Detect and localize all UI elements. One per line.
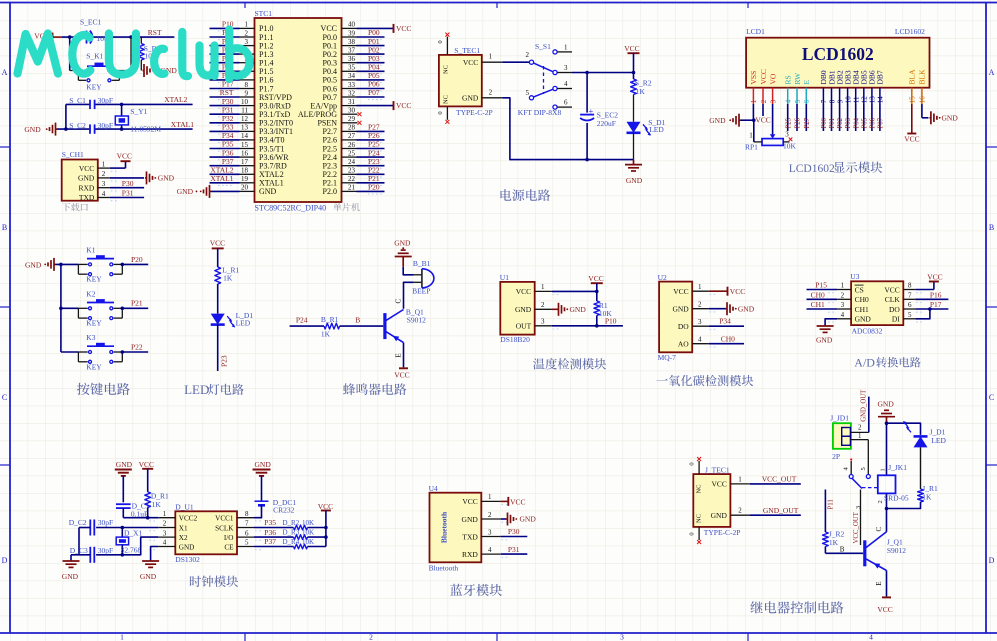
capacitor S_EC2 (580, 73, 618, 160)
svg-text:Bluetooth: Bluetooth (429, 563, 459, 572)
pin 1 S_CH1 (98, 160, 119, 171)
svg-text:P23: P23 (220, 355, 229, 367)
svg-text:P04: P04 (853, 117, 860, 128)
svg-text:A: A (2, 68, 8, 77)
pin 28 STC1 / net P27 (342, 123, 385, 134)
pin 31 STC1 / power VCC (342, 98, 412, 110)
wire net B (340, 315, 384, 326)
svg-text:LED: LED (649, 125, 664, 134)
svg-text:S9012: S9012 (407, 316, 426, 325)
power VCC S_CH1 (110, 152, 132, 169)
pin 12 LCD1 name DB5 (860, 70, 869, 104)
svg-text:B: B (989, 223, 994, 232)
pin 38 STC1 / net P01 (342, 37, 385, 48)
svg-text:SRD-05: SRD-05 (884, 494, 909, 503)
led S_D1 (627, 95, 666, 160)
svg-text:2: 2 (738, 507, 742, 515)
pin 26 STC1 / net P25 (342, 140, 385, 151)
designator LCD1 (746, 27, 765, 36)
svg-text:RST: RST (148, 28, 162, 37)
pin top S_TEC1 no-connect (437, 33, 450, 55)
svg-text:3: 3 (841, 301, 845, 309)
resistor D_R4 net P37 (254, 537, 326, 549)
svg-text:15: 15 (241, 141, 249, 149)
svg-text:VCC: VCC (730, 287, 745, 296)
wire lcd pin6 net P27 (804, 104, 811, 131)
svg-text:GND: GND (116, 460, 133, 469)
svg-text:S_Y1: S_Y1 (130, 107, 147, 116)
wire lcd pin11 net P04 (853, 104, 860, 131)
svg-text:9: 9 (836, 99, 844, 103)
svg-text:23: 23 (348, 167, 356, 175)
svg-text:1K: 1K (223, 274, 233, 283)
caption 电源电路 (501, 189, 551, 201)
capacitor D_C1 (116, 476, 150, 519)
wire X2 (96, 537, 158, 555)
pin 16 LCD1 name BLK (918, 69, 927, 104)
net P17 (915, 300, 948, 309)
svg-text:DI: DI (892, 315, 900, 324)
svg-text:GND: GND (78, 174, 95, 183)
svg-text:GND: GND (672, 305, 689, 314)
power VCC U1 (588, 274, 603, 301)
junction (752, 118, 756, 122)
svg-text:VCC: VCC (588, 274, 603, 283)
capacitor D_C2 (69, 518, 114, 535)
svg-text:4: 4 (488, 546, 492, 554)
svg-text:24: 24 (348, 158, 356, 166)
svg-text:1: 1 (163, 510, 167, 518)
svg-text:CH1: CH1 (811, 300, 825, 309)
wire lcd pin10 net P03 (845, 104, 852, 131)
svg-text:GND: GND (259, 187, 277, 196)
svg-text:DS1302: DS1302 (175, 555, 200, 564)
buzzer B_B1 (412, 259, 434, 296)
svg-text:C: C (989, 393, 994, 402)
svg-text:VCC_OUT: VCC_OUT (853, 511, 860, 543)
svg-text:J_TEC1: J_TEC1 (705, 465, 730, 474)
power VCC clock (139, 460, 154, 492)
wire key bus (56, 264, 79, 352)
svg-text:K3: K3 (86, 333, 95, 342)
svg-text:30pF: 30pF (98, 121, 113, 130)
svg-text:GND: GND (711, 511, 728, 520)
svg-text:7: 7 (820, 99, 828, 103)
pin 10 STC1 / net P30 (210, 97, 255, 108)
crystal D_X1 (116, 528, 142, 555)
capacitor S_EC1 (80, 17, 112, 43)
svg-text:VSS: VSS (749, 71, 758, 85)
resistor L_R1 (215, 266, 240, 284)
svg-text:1K: 1K (321, 330, 331, 339)
net P11 resistor J_R2 (823, 490, 845, 554)
pin 15 STC1 / net P35 (210, 140, 255, 151)
svg-text:2: 2 (877, 500, 884, 503)
pin 8 U3 stub (903, 282, 924, 293)
svg-text:6: 6 (564, 99, 568, 107)
junction (121, 526, 125, 530)
pin 3 LCD1 name VO (768, 73, 777, 104)
svg-text:C: C (394, 299, 402, 304)
svg-text:P31: P31 (508, 545, 520, 554)
svg-text:2: 2 (698, 301, 702, 309)
svg-text:1: 1 (750, 99, 758, 103)
wire lcd pin5 net P26 (795, 104, 802, 131)
svg-text:10K: 10K (302, 538, 314, 546)
svg-text:2: 2 (245, 29, 249, 37)
power VCC buzzer (394, 367, 409, 379)
svg-text:VCC: VCC (884, 285, 899, 294)
relay switch contact (842, 458, 878, 545)
pin bottom J_TEC1 no-connect (689, 527, 702, 544)
designator U4 (429, 484, 438, 493)
junction (885, 507, 889, 511)
crystal S_Y1 (115, 104, 161, 133)
svg-text:1: 1 (738, 475, 742, 483)
svg-text:P30: P30 (508, 527, 520, 536)
svg-text:1K: 1K (829, 538, 839, 547)
pin 1 U1 (535, 283, 597, 294)
pin 4 U4 stub (481, 546, 509, 557)
svg-text:GND: GND (462, 515, 479, 524)
ic U2 body (659, 282, 692, 353)
svg-text:VCC: VCC (904, 134, 919, 143)
ground at STC1 pin 20 (177, 185, 211, 198)
pin 4 U2 stub (692, 336, 717, 347)
svg-text:GND: GND (942, 113, 959, 122)
svg-text:K1: K1 (86, 245, 95, 254)
junction (121, 553, 125, 557)
svg-text:GND: GND (878, 400, 895, 409)
svg-text:CR232: CR232 (273, 506, 295, 515)
power VCC U3 (915, 273, 942, 290)
caption 蜂鸣器电路 (343, 383, 406, 395)
ground relay (878, 400, 896, 424)
ground S_CH1 (110, 171, 175, 184)
svg-text:P02: P02 (837, 117, 844, 128)
svg-text:30pF: 30pF (98, 546, 113, 555)
pin 5 D_U1 stub (237, 539, 263, 550)
pin 8 STC1 / net P17 (210, 80, 255, 91)
svg-text:LCD1602: LCD1602 (789, 163, 835, 175)
pin 4 LCD1 name RS (784, 75, 793, 104)
svg-text:6: 6 (803, 99, 811, 103)
svg-text:VCC: VCC (755, 115, 770, 124)
pin 3 U1 (535, 316, 623, 329)
pin 13 STC1 / net P33 (210, 123, 255, 134)
ground clock top (115, 460, 133, 476)
svg-text:GND_OUT: GND_OUT (860, 389, 867, 422)
designator STC1 (255, 9, 273, 18)
wire lcd pin8 net P01 (829, 104, 836, 131)
transistor J_Q1 (865, 532, 907, 571)
svg-text:GND: GND (394, 239, 411, 248)
junction (121, 263, 125, 267)
svg-text:3: 3 (245, 38, 249, 46)
svg-text:RS: RS (784, 75, 793, 84)
svg-text:38: 38 (348, 38, 356, 46)
switch S_S1 (526, 42, 573, 109)
junction (885, 421, 889, 425)
svg-text:STC89C52RC_DIP40: STC89C52RC_DIP40 (255, 204, 327, 213)
svg-text:2: 2 (163, 520, 167, 528)
svg-text:S_EC1: S_EC1 (80, 17, 102, 26)
svg-text:P25: P25 (785, 117, 792, 128)
svg-text:33: 33 (348, 81, 356, 89)
svg-text:B_R1: B_R1 (321, 315, 339, 324)
connector J_TEC1 body (693, 474, 730, 527)
pin 2 STC1 / net P11 (210, 28, 255, 39)
svg-text:A: A (989, 68, 995, 77)
svg-text:D_U1: D_U1 (175, 502, 194, 511)
value MQ-7 (658, 353, 677, 362)
caption A/D转换电路 (854, 356, 920, 370)
svg-text:4: 4 (564, 80, 568, 88)
svg-text:ADC0832: ADC0832 (852, 327, 883, 336)
svg-text:15: 15 (909, 96, 917, 104)
svg-text:8: 8 (908, 282, 912, 290)
pin 1 S_TEC1 (482, 53, 530, 63)
svg-text:D_X1: D_X1 (124, 528, 143, 537)
wire (920, 447, 922, 489)
svg-text:1K: 1K (922, 493, 932, 502)
pin 14 STC1 / net P34 (210, 131, 255, 142)
svg-text:3: 3 (769, 99, 777, 103)
svg-text:30: 30 (348, 107, 356, 115)
svg-text:GND: GND (140, 572, 157, 581)
svg-text:0: 0 (437, 111, 444, 114)
svg-text:+: + (589, 106, 594, 116)
pin 2 U4 stub (481, 511, 509, 522)
wire emitter (394, 343, 403, 368)
power VCC led (210, 238, 225, 267)
svg-text:P30: P30 (122, 179, 134, 188)
svg-text:B: B (840, 545, 845, 553)
pin 25 STC1 / net P24 (342, 148, 385, 159)
svg-text:GND: GND (158, 174, 175, 183)
svg-text:D: D (2, 556, 8, 565)
svg-text:1K: 1K (636, 87, 646, 96)
pin top J_TEC1 no-connect (689, 457, 702, 474)
svg-text:3: 3 (488, 528, 492, 536)
svg-text:B: B (2, 223, 7, 232)
pin 37 STC1 / net P02 (342, 45, 385, 56)
svg-text:2: 2 (541, 301, 545, 309)
pin 2 J_JD1 net GND_OUT (850, 389, 868, 433)
capacitor D_C3 (70, 546, 113, 563)
svg-text:KEY: KEY (86, 275, 102, 284)
pin 4 S_CH1 (98, 190, 119, 201)
caption 继电器控制电路 (750, 601, 843, 614)
wire emitter relay (875, 571, 887, 597)
svg-text:VCC: VCC (711, 480, 726, 489)
wire lcd bla vcc (904, 104, 919, 143)
net P30 U4 (501, 527, 528, 536)
svg-text:CH0: CH0 (855, 295, 869, 304)
wire led branch (887, 423, 921, 435)
designator U2 (658, 273, 667, 282)
pin 32 STC1 / net P07 (342, 88, 385, 99)
svg-text:D_R3: D_R3 (283, 528, 300, 536)
wire lcd pin9 net P02 (837, 104, 844, 131)
svg-text:12: 12 (241, 115, 249, 123)
svg-text:SCLK: SCLK (215, 524, 234, 532)
svg-text:5: 5 (860, 467, 867, 470)
caption 温度检测模块 (533, 358, 606, 370)
pin 27 STC1 / net P26 (342, 131, 385, 142)
resistor D_R1 (145, 492, 169, 518)
svg-text:13: 13 (241, 124, 249, 132)
svg-text:BEEP: BEEP (412, 287, 430, 296)
svg-text:S9012: S9012 (887, 546, 906, 555)
svg-text:GND: GND (855, 315, 872, 324)
svg-text:GND: GND (179, 543, 195, 551)
pin 2 S_CH1 (98, 170, 119, 181)
pin 22 STC1 / net P21 (342, 174, 385, 185)
svg-text:VCC: VCC (79, 164, 94, 173)
ground clock mid (140, 547, 159, 581)
svg-text:S_TEC1: S_TEC1 (454, 46, 480, 55)
svg-text:B_B1: B_B1 (413, 259, 431, 268)
svg-text:2: 2 (526, 51, 530, 59)
svg-text:DB7: DB7 (876, 70, 885, 84)
capacitor S_C1 (69, 96, 113, 109)
pin 1 U4 stub (481, 493, 509, 504)
svg-text:P2.0: P2.0 (323, 187, 337, 196)
wire lcd blk gnd (922, 104, 929, 118)
pin 15 LCD1 name BLA (908, 69, 917, 104)
svg-text:35: 35 (348, 64, 356, 72)
svg-text:10: 10 (241, 98, 249, 106)
svg-text:LED: LED (184, 382, 209, 397)
wire (403, 267, 414, 275)
svg-text:VCC: VCC (516, 287, 531, 296)
svg-text:E: E (875, 582, 883, 586)
svg-text:30pF: 30pF (98, 96, 113, 105)
wire XTAL2 (66, 103, 193, 105)
svg-text:P06: P06 (870, 117, 877, 128)
wire P21 (122, 299, 148, 309)
svg-text:30pF: 30pF (98, 518, 113, 527)
ground crystal (24, 123, 57, 136)
svg-text:VCC1: VCC1 (215, 515, 234, 523)
junction (595, 324, 599, 328)
junction (68, 35, 72, 39)
svg-text:1: 1 (858, 432, 862, 440)
power VCC reset (34, 32, 62, 42)
pin 3 STC1 / net P12 (210, 37, 255, 48)
svg-text:LCD1602: LCD1602 (895, 27, 925, 36)
wire DI tie (915, 309, 930, 319)
wire lcd pin14 net P07 (878, 104, 885, 131)
svg-text:C: C (2, 393, 7, 402)
svg-text:1: 1 (841, 282, 845, 290)
svg-text:VCC: VCC (673, 287, 688, 296)
svg-text:34: 34 (348, 72, 356, 80)
svg-text:RP1: RP1 (745, 143, 758, 152)
svg-text:VCC: VCC (624, 44, 639, 53)
svg-text:DO: DO (678, 322, 689, 331)
svg-text:KEY: KEY (86, 319, 102, 328)
svg-text:OUT: OUT (516, 322, 532, 331)
pin 21 STC1 / net P20 (342, 183, 385, 194)
svg-text:4: 4 (698, 336, 702, 344)
svg-text:32: 32 (348, 89, 356, 97)
svg-text:5: 5 (526, 89, 530, 97)
resistor D_R2 net P35 (254, 518, 326, 530)
svg-text:P11: P11 (827, 499, 834, 509)
svg-text:VCC: VCC (396, 24, 411, 33)
svg-text:GND: GND (255, 460, 272, 469)
svg-text:3: 3 (620, 633, 624, 641)
svg-text:8: 8 (245, 81, 249, 89)
svg-text:26: 26 (348, 141, 356, 149)
svg-text:KEY: KEY (86, 362, 102, 371)
power VCC relay (877, 596, 892, 613)
value KFT DIP-8X8 (518, 108, 562, 117)
svg-text:NC: NC (696, 514, 703, 523)
svg-text:J_JK1: J_JK1 (888, 463, 907, 472)
svg-text:1: 1 (541, 283, 545, 291)
pin 3 U3 stub (828, 301, 851, 312)
svg-text:RXD: RXD (78, 183, 94, 192)
pin 19 STC1 / net XTAL1 (210, 174, 255, 185)
svg-text:12: 12 (861, 96, 869, 104)
svg-text:16: 16 (241, 149, 249, 157)
svg-text:CE: CE (224, 543, 234, 551)
svg-text:LCD1: LCD1 (746, 27, 765, 36)
svg-text:U2: U2 (658, 273, 667, 282)
ic U4 body (430, 493, 482, 563)
ground clock left (62, 555, 80, 581)
svg-text:3: 3 (698, 318, 702, 326)
svg-text:4: 4 (102, 190, 106, 198)
value ADC0832 (852, 327, 883, 336)
svg-text:3: 3 (785, 130, 789, 138)
value STC89C52RC_DIP40 (255, 204, 327, 213)
net P31 S_CH1 (110, 189, 144, 198)
net P16 (915, 290, 948, 299)
svg-text:1: 1 (749, 132, 753, 140)
value TYPE-C-2P (456, 108, 493, 117)
svg-text:P00: P00 (821, 117, 828, 128)
svg-text:32.768: 32.768 (121, 545, 142, 554)
svg-text:2: 2 (488, 511, 492, 519)
pin 24 STC1 / net P23 (342, 157, 385, 168)
value Bluetooth (429, 563, 459, 572)
wire P22 (122, 342, 148, 352)
svg-text:14: 14 (241, 132, 249, 140)
designator J_TEC1 (705, 465, 730, 474)
pin 39 STC1 / net P00 (342, 28, 385, 39)
led J_D1 (903, 421, 946, 447)
ground keys (25, 258, 56, 271)
svg-text:NC: NC (696, 484, 703, 493)
net P31 U4 (501, 545, 528, 554)
wire (217, 284, 219, 314)
pin 23 STC1 / net P22 (342, 166, 385, 177)
svg-text:VCC: VCC (318, 502, 333, 511)
svg-text:VCC: VCC (210, 238, 225, 247)
pin 1 U2 stub (692, 283, 717, 294)
svg-text:VCC2: VCC2 (179, 515, 198, 523)
svg-text:1: 1 (245, 21, 249, 29)
net P15 (807, 281, 838, 290)
svg-text:28: 28 (348, 124, 356, 132)
value DS1302 (175, 555, 200, 564)
svg-text:K2: K2 (86, 289, 95, 298)
pin 17 STC1 / net P37 (210, 157, 255, 168)
